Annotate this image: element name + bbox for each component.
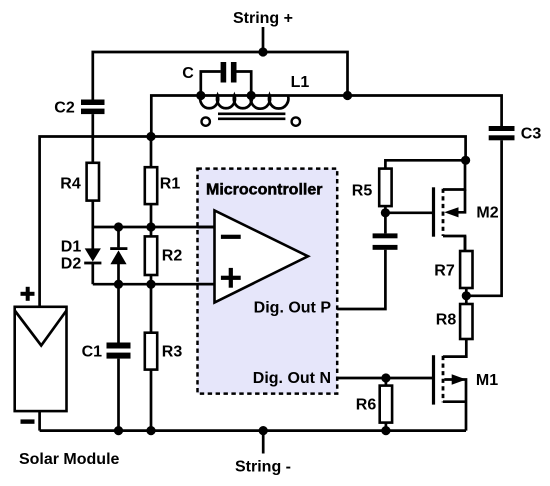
node plus net R2 R3 [146, 280, 155, 289]
svg-text:R5: R5 [352, 183, 373, 200]
svg-text:R6: R6 [356, 397, 377, 414]
resistor R3 [145, 333, 157, 370]
node bottom rail String- [259, 426, 268, 435]
node minus net D2 [114, 222, 123, 231]
op-amp plus sign [221, 268, 241, 288]
wire R6 bottom lead [385, 423, 388, 431]
node bottom rail R3 [146, 426, 155, 435]
node R5 gate cap junction [381, 208, 390, 217]
wire R3 bottom lead [150, 370, 153, 431]
node L1 left [196, 91, 205, 100]
svg-text:D1: D1 [61, 239, 82, 256]
node bottom rail R6 [381, 426, 390, 435]
wire C3 bottom lead to R7 R8 node [466, 140, 501, 295]
svg-text:Microcontroller: Microcontroller [206, 182, 322, 199]
diode D2 [110, 247, 127, 264]
resistor R8 [460, 304, 472, 339]
wire D1 anode lead [91, 227, 94, 249]
wire String+ stub [262, 27, 265, 52]
svg-text:R2: R2 [162, 248, 183, 265]
node L1 mid [247, 91, 256, 100]
svg-text:Dig. Out P: Dig. Out P [254, 300, 332, 317]
wire C1 to bottom rail [117, 359, 120, 431]
capacitor C1 plates [107, 343, 131, 359]
node plus net D2 [114, 280, 123, 289]
wire L1 top line with left lead down to mid rail and right lead down to C3 [151, 96, 501, 137]
wire mid rail from solar plus to M2 drain node [40, 137, 466, 307]
svg-text:L1: L1 [291, 74, 310, 91]
resistor R4 [87, 163, 99, 201]
inductor L1 phase dot right [292, 117, 300, 125]
svg-text:R7: R7 [434, 263, 455, 280]
diode D1 [84, 248, 101, 264]
node M2 drain [461, 156, 470, 165]
node L1 right [343, 91, 352, 100]
svg-text:D2: D2 [61, 256, 82, 273]
wire R8 top lead [465, 296, 468, 304]
solar module body [15, 307, 67, 411]
microcontroller block U1 [198, 169, 338, 394]
op-amp minus sign [221, 235, 241, 239]
node bottom rail C1 [114, 426, 123, 435]
wire bottom rail String- [40, 429, 466, 432]
inductor L1 phase dot left [202, 117, 210, 125]
node minus net R1 R2 [146, 222, 155, 231]
wire solar module bottom lead [38, 411, 41, 431]
node R7 R8 C3 [462, 291, 471, 300]
transistor M1 [434, 355, 467, 430]
svg-text:C3: C3 [521, 126, 542, 143]
wire R7 bottom lead [465, 288, 468, 296]
solar module chevron [15, 311, 67, 346]
wire D2 anode to plus net and down to C1 [117, 264, 120, 343]
wire gate cap top lead [384, 213, 387, 234]
wire D1 cathode to plus net [91, 264, 94, 284]
wire capacitor C right lead [236, 72, 251, 96]
svg-text:Dig. Out N: Dig. Out N [253, 370, 331, 387]
capacitor C3 plates [489, 126, 515, 140]
wire plus input net [93, 283, 215, 286]
inductor L1 winding 1 [200, 96, 252, 109]
inductor L1 winding 2 [251, 96, 289, 109]
svg-text:R4: R4 [60, 176, 81, 193]
wire R6 top lead [385, 378, 388, 386]
svg-text:R1: R1 [160, 176, 181, 193]
wire R7 top lead [464, 236, 467, 251]
capacitor C2 plates [81, 100, 105, 115]
resistor R2 [145, 236, 157, 275]
wire R2 bottom lead [150, 275, 153, 284]
svg-text:Solar Module: Solar Module [19, 451, 120, 468]
capacitor C plates [221, 62, 237, 83]
wire minus input net [93, 226, 215, 229]
wire String- stub [262, 431, 265, 454]
resistor R5 [379, 169, 391, 207]
svg-text:R8: R8 [436, 312, 457, 329]
inductor L1 core lines [218, 114, 285, 119]
svg-text:R3: R3 [162, 344, 183, 361]
node mid rail R1 [146, 132, 155, 141]
svg-text:C1: C1 [82, 344, 103, 361]
wire capacitor C left lead [201, 72, 221, 96]
node at String+ junction [258, 47, 267, 56]
solar module plus sign [21, 287, 35, 301]
op-amp U1 triangle [215, 210, 309, 302]
wire R2 top lead [150, 227, 153, 236]
svg-text:C: C [182, 65, 194, 82]
wire R8 bottom lead to M1 drain [443, 339, 466, 357]
node Dig Out N R6 [381, 373, 390, 382]
wire op-amp minus input [198, 226, 215, 229]
svg-text:String +: String + [233, 10, 293, 27]
wire R5 bottom lead [384, 206, 387, 213]
resistor R1 [145, 167, 157, 204]
resistor R6 [380, 386, 392, 423]
wire R1 top lead [150, 137, 153, 168]
wire top rail from C2 corner to L1 right node [93, 52, 348, 100]
svg-text:M1: M1 [476, 372, 498, 389]
resistor R7 [460, 251, 472, 288]
transistor M2 [434, 160, 466, 251]
wire C2 to R4 [91, 114, 94, 163]
svg-text:M2: M2 [476, 205, 498, 222]
wire R1 bottom lead [150, 204, 153, 227]
wire Dig Out N to M1 gate [337, 377, 433, 380]
wire R5 top lead from M2 drain node [385, 160, 465, 168]
wire gate cap bottom to Dig Out P [337, 250, 385, 309]
wire M2 gate lead [385, 211, 432, 214]
solar module minus sign [21, 419, 35, 423]
capacitor at M2 gate plates [373, 233, 398, 249]
wire R3 top lead [150, 284, 153, 333]
svg-text:String -: String - [235, 459, 291, 476]
wire R4 to minus net [91, 201, 94, 227]
svg-text:C2: C2 [54, 100, 75, 117]
wire op-amp plus input [198, 283, 215, 286]
wire D2 cathode lead [117, 227, 120, 247]
